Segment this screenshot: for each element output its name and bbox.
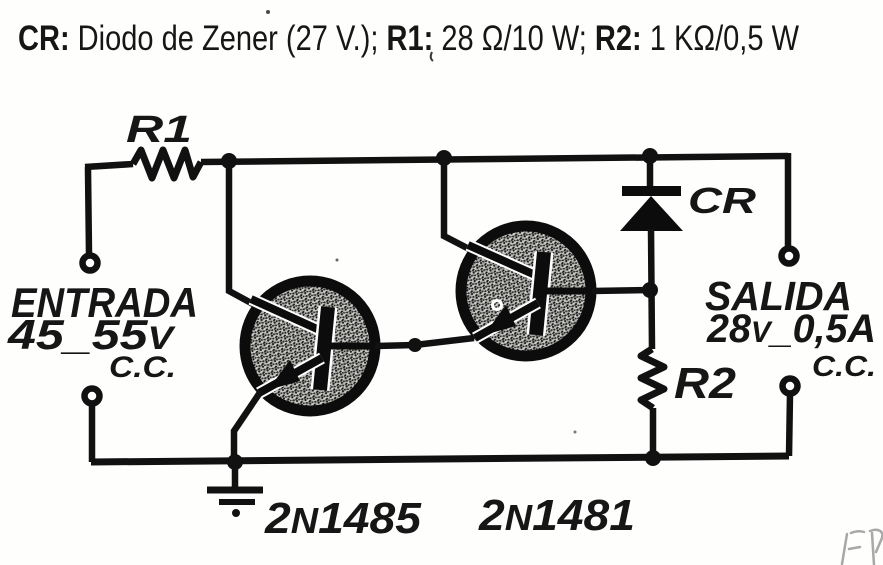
transistor Q2 base bar xyxy=(536,252,544,335)
wire: zener to junction xyxy=(651,229,652,349)
node: junction between Q1 and Q2 xyxy=(408,338,422,352)
node: junction at Q2 collector branch xyxy=(436,150,452,166)
transistor Q1 internal collector diagonal xyxy=(251,299,326,333)
svg-text:2N1481: 2N1481 xyxy=(478,491,635,540)
resistor R2 zigzag xyxy=(641,349,664,408)
svg-text:R2: R2 xyxy=(674,359,737,408)
terminal: input - (lower-left) xyxy=(85,389,100,404)
wire: base lead from R1 node down to Q1 xyxy=(229,161,253,304)
wire: top rail from R1 to right corner xyxy=(201,156,788,162)
transistor Q2 base lead to right xyxy=(546,288,594,295)
zener diode CR triangle xyxy=(620,196,683,231)
terminal: input + (upper-left) xyxy=(83,256,98,271)
terminal: output + (upper-right) xyxy=(782,249,797,264)
node: junction at zener/R2 xyxy=(642,282,658,298)
wire: lower-left terminal to rail xyxy=(89,404,96,462)
wire: lower-right terminal to rail xyxy=(789,394,790,456)
transistor Q2 emitter diagonal with arrow xyxy=(475,303,538,338)
wire: Q2 base to zener branch xyxy=(592,290,650,291)
wire: top rail left segment before R1 xyxy=(85,164,133,167)
svg-text:CR: Diodo de Zener (27 V.); R1: CR: Diodo de Zener (27 V.); R1: 28 Ω/10 … xyxy=(18,19,799,58)
node: junction at zener branch xyxy=(642,148,658,164)
ink speck xyxy=(266,10,270,14)
wire: Q1 base to Q2 emitter xyxy=(375,338,474,346)
bottom rail wire xyxy=(91,456,789,462)
wire: R2 to bottom rail xyxy=(650,408,657,458)
node: ground junction xyxy=(227,454,243,470)
svg-text:C.C.: C.C. xyxy=(109,351,176,384)
wire: Q1 emitter down to ground rail xyxy=(234,391,261,461)
svg-text:CR: CR xyxy=(688,180,756,221)
transistor Q2 internal collector diagonal xyxy=(468,245,542,278)
transistor Q1 base lead to right xyxy=(330,343,378,350)
ink speck xyxy=(336,259,339,262)
node: junction after R1 xyxy=(221,153,237,169)
pencil signature bottom-right xyxy=(842,530,882,565)
ink speck xyxy=(431,52,433,61)
node: junction on bottom rail xyxy=(645,450,661,466)
svg-text:28V_0,5A: 28V_0,5A xyxy=(706,307,876,351)
ink speck xyxy=(574,431,577,434)
transistor Q1 2N1485 body xyxy=(245,281,375,411)
ground symbol xyxy=(207,462,263,517)
zener diode CR cathode bar xyxy=(622,186,681,196)
svg-text:C.C.: C.C. xyxy=(812,351,876,383)
transistor Q1 emitter diagonal with arrow xyxy=(259,358,322,393)
wire: top-left vertical from input terminal up to top rail xyxy=(88,167,89,254)
svg-text:2N1485: 2N1485 xyxy=(264,494,422,543)
svg-text:R1: R1 xyxy=(126,109,192,151)
wire: zener branch top xyxy=(647,156,654,188)
transistor Q1 base bar xyxy=(320,307,328,390)
terminal: output - (lower-right) xyxy=(783,379,798,394)
transistor Q2 2N1481 body xyxy=(461,226,591,356)
wire: collector lead from top rail node down to Q2 xyxy=(444,158,471,250)
decorative white mark inside Q2 xyxy=(493,301,502,310)
resistor R1 zigzag xyxy=(133,150,201,178)
wire: right rail down to output + terminal xyxy=(785,153,792,247)
